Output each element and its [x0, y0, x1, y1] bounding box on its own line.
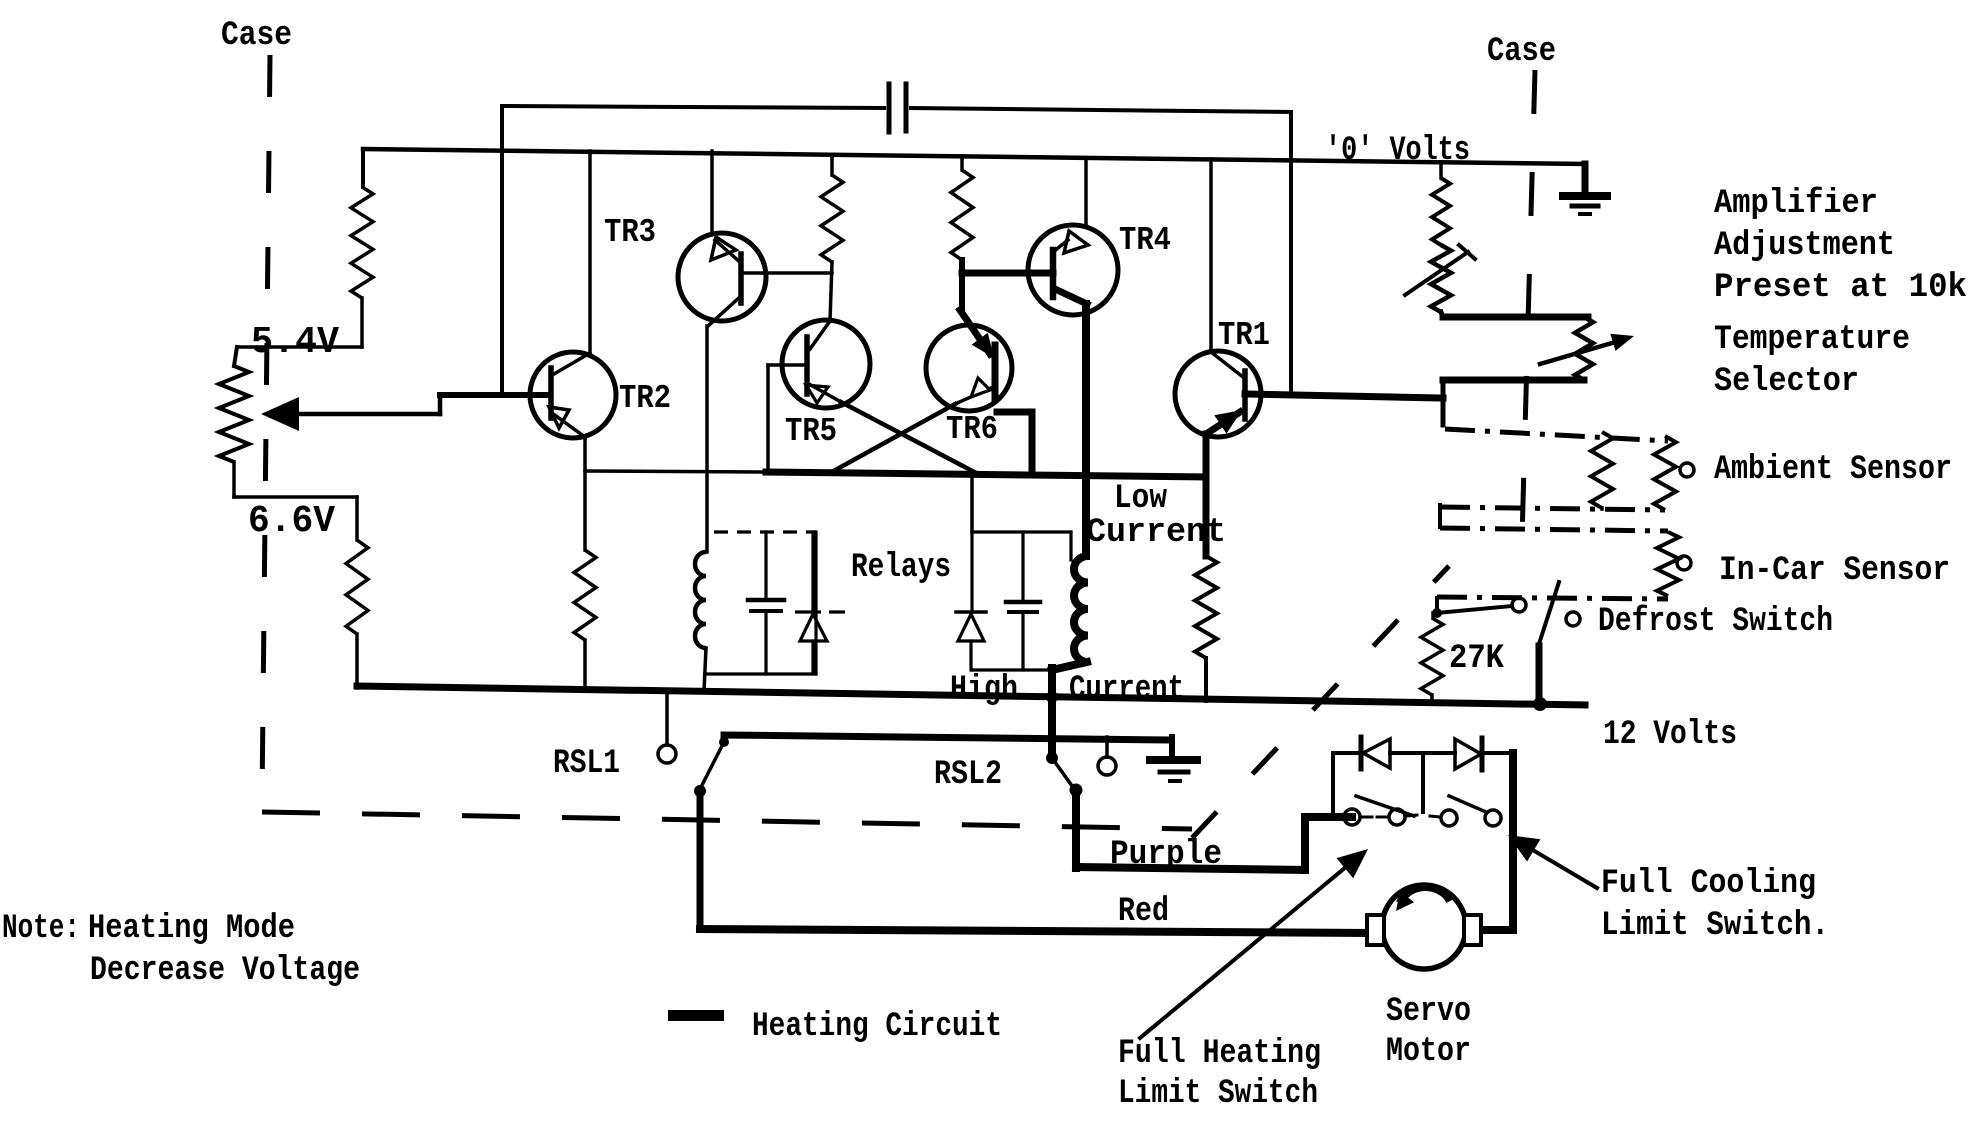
svg-text:Adjustment: Adjustment [1714, 227, 1895, 265]
svg-text:TR5: TR5 [785, 413, 837, 450]
svg-text:Case: Case [1487, 33, 1556, 71]
svg-text:12 Volts: 12 Volts [1603, 716, 1737, 754]
svg-text:Heating Circuit: Heating Circuit [752, 1008, 1002, 1046]
svg-text:Amplifier: Amplifier [1714, 185, 1878, 223]
svg-text:TR4: TR4 [1119, 222, 1171, 259]
svg-text:Case: Case [221, 17, 292, 55]
svg-text:Current: Current [1069, 671, 1184, 709]
svg-text:Relays: Relays [851, 549, 951, 587]
svg-text:Defrost Switch: Defrost Switch [1598, 603, 1833, 641]
svg-text:Ambient Sensor: Ambient Sensor [1714, 451, 1952, 489]
svg-text:Limit Switch: Limit Switch [1118, 1075, 1318, 1113]
svg-text:Limit Switch.: Limit Switch. [1601, 907, 1829, 945]
svg-text:Red: Red [1118, 893, 1169, 931]
svg-text:RSL1: RSL1 [553, 745, 620, 783]
svg-text:Low: Low [1114, 480, 1168, 518]
svg-text:Motor: Motor [1386, 1033, 1471, 1071]
svg-text:Decrease Voltage: Decrease Voltage [90, 952, 360, 990]
svg-text:Note:: Note: [2, 910, 80, 948]
svg-text:TR3: TR3 [604, 214, 656, 251]
svg-text:In-Car Sensor: In-Car Sensor [1719, 552, 1950, 590]
svg-text:Full Cooling: Full Cooling [1601, 865, 1816, 903]
svg-text:Full Heating: Full Heating [1118, 1035, 1321, 1073]
svg-text:Current: Current [1086, 514, 1226, 552]
svg-text:Temperature: Temperature [1714, 321, 1910, 359]
svg-text:RSL2: RSL2 [934, 756, 1002, 794]
svg-text:Purple: Purple [1110, 836, 1222, 874]
svg-text:Selector: Selector [1714, 363, 1859, 401]
svg-text:TR2: TR2 [619, 380, 671, 417]
svg-text:Heating Mode: Heating Mode [88, 910, 295, 948]
svg-text:6.6V: 6.6V [248, 500, 335, 543]
svg-text:'0' Volts: '0' Volts [1325, 132, 1470, 170]
svg-text:Preset at 10k: Preset at 10k [1714, 269, 1967, 307]
svg-text:TR6: TR6 [946, 411, 998, 448]
svg-text:High: High [950, 671, 1018, 709]
svg-text:27K: 27K [1449, 640, 1505, 678]
svg-text:TR1: TR1 [1218, 317, 1270, 354]
svg-text:5.4V: 5.4V [251, 321, 339, 364]
svg-text:Servo: Servo [1386, 993, 1471, 1031]
